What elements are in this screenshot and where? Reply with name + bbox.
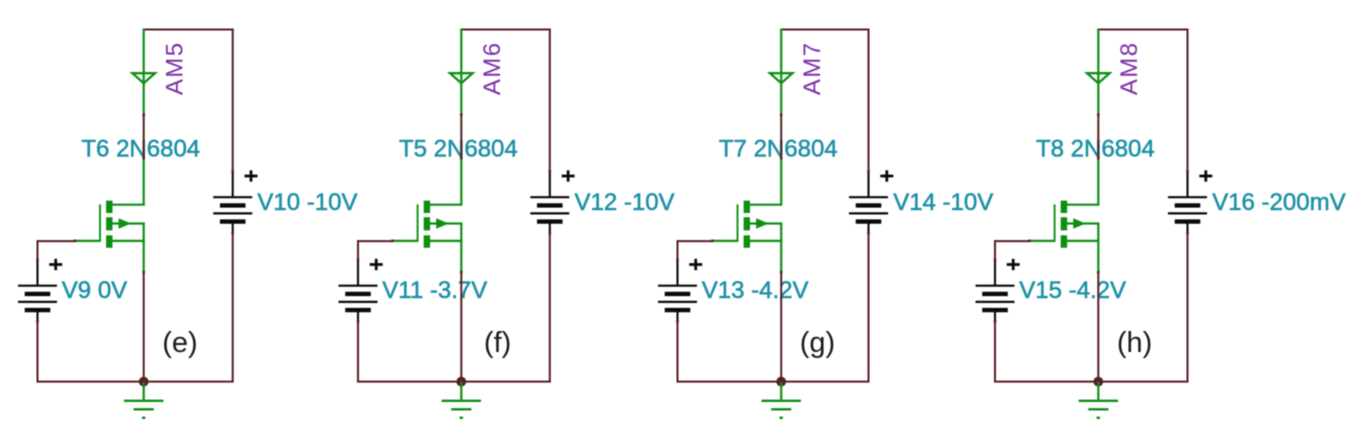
wire gate net (f) bbox=[357, 240, 392, 261]
transistor T6 (P-MOSFET 2N6804) bbox=[74, 157, 146, 274]
wire top net (g) bbox=[780, 29, 869, 31]
ground (h) bbox=[1079, 382, 1118, 418]
node junction (g) bbox=[776, 377, 786, 387]
svg-text:V16 -200mV: V16 -200mV bbox=[1212, 189, 1345, 216]
svg-text:AM6: AM6 bbox=[479, 42, 506, 96]
wire left battery to bottom (e) bbox=[37, 321, 39, 382]
voltage source V12 bbox=[530, 170, 574, 235]
wire right branch (f) bbox=[549, 29, 551, 382]
ammeter AM8 bbox=[1087, 29, 1110, 117]
svg-text:V10 -10V: V10 -10V bbox=[257, 189, 357, 216]
wire ammeter-to-drain (g) bbox=[780, 115, 782, 157]
wire top net (e) bbox=[143, 29, 234, 31]
voltage source V16 bbox=[1168, 170, 1212, 235]
wire left battery to bottom (h) bbox=[994, 321, 996, 382]
node junction (h) bbox=[1093, 377, 1103, 387]
svg-text:T7 2N6804: T7 2N6804 bbox=[719, 135, 838, 162]
ground (g) bbox=[762, 382, 801, 418]
wire right branch (h) bbox=[1187, 29, 1189, 382]
wire bottom ground net (h) bbox=[994, 381, 1189, 383]
svg-text:T8 2N6804: T8 2N6804 bbox=[1036, 135, 1155, 162]
svg-text:V14 -10V: V14 -10V bbox=[893, 189, 993, 216]
svg-text:V13 -4.2V: V13 -4.2V bbox=[702, 277, 809, 304]
voltage source V14 bbox=[849, 170, 893, 235]
svg-text:(g): (g) bbox=[800, 327, 835, 359]
svg-text:T6 2N6804: T6 2N6804 bbox=[81, 135, 200, 162]
ground (e) bbox=[124, 382, 163, 418]
wire source-to-ground (h) bbox=[1097, 273, 1099, 382]
svg-text:(h): (h) bbox=[1117, 327, 1152, 359]
ammeter AM7 bbox=[770, 29, 793, 117]
voltage source V11 bbox=[339, 258, 383, 323]
svg-text:AM5: AM5 bbox=[161, 42, 188, 96]
wire gate net (g) bbox=[677, 240, 712, 261]
wire bottom ground net (e) bbox=[37, 381, 234, 383]
wire right branch (e) bbox=[232, 29, 234, 382]
transistor T5 (P-MOSFET 2N6804) bbox=[391, 157, 463, 274]
transistor T8 (P-MOSFET 2N6804) bbox=[1028, 157, 1100, 274]
wire gate net (h) bbox=[994, 240, 1029, 261]
node junction (f) bbox=[456, 377, 466, 387]
wire ammeter-to-drain (e) bbox=[143, 115, 145, 157]
voltage source V15 bbox=[976, 258, 1020, 323]
wire left battery to bottom (g) bbox=[677, 321, 679, 382]
svg-text:T5 2N6804: T5 2N6804 bbox=[399, 135, 518, 162]
svg-text:AM8: AM8 bbox=[1116, 42, 1143, 96]
wire bottom ground net (f) bbox=[357, 381, 551, 383]
svg-text:V9 0V: V9 0V bbox=[62, 277, 127, 304]
wire top net (h) bbox=[1097, 29, 1188, 31]
node junction (e) bbox=[139, 377, 149, 387]
wire source-to-ground (g) bbox=[780, 273, 782, 382]
svg-text:V12 -10V: V12 -10V bbox=[575, 189, 675, 216]
svg-text:V15 -4.2V: V15 -4.2V bbox=[1019, 277, 1126, 304]
svg-text:V11 -3.7V: V11 -3.7V bbox=[382, 277, 487, 304]
ground (f) bbox=[442, 382, 481, 418]
wire top net (f) bbox=[460, 29, 551, 31]
voltage source V10 bbox=[213, 170, 257, 235]
ammeter AM6 bbox=[450, 29, 473, 117]
wire bottom ground net (g) bbox=[677, 381, 870, 383]
wire gate net (e) bbox=[37, 240, 75, 261]
wire source-to-ground (e) bbox=[143, 273, 145, 382]
svg-text:(e): (e) bbox=[162, 327, 197, 359]
ammeter AM5 bbox=[132, 29, 155, 117]
wire ammeter-to-drain (h) bbox=[1097, 115, 1099, 157]
wire left battery to bottom (f) bbox=[357, 321, 359, 382]
svg-text:AM7: AM7 bbox=[799, 42, 826, 96]
wire ammeter-to-drain (f) bbox=[460, 115, 462, 157]
voltage source V13 bbox=[658, 258, 702, 323]
wire right branch (g) bbox=[868, 29, 870, 382]
wire source-to-ground (f) bbox=[460, 273, 462, 382]
voltage source V9 bbox=[18, 258, 62, 323]
transistor T7 (P-MOSFET 2N6804) bbox=[711, 157, 783, 274]
svg-text:(f): (f) bbox=[484, 327, 511, 359]
